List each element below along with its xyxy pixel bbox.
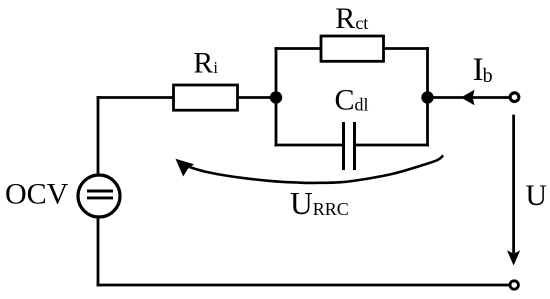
curved arrow URRC arc <box>190 156 443 183</box>
svg-text:U: U <box>525 179 547 212</box>
current arrow Ib head <box>461 90 475 105</box>
node B junction dot <box>421 91 433 103</box>
capacitor Cdl plate left <box>342 122 345 170</box>
svg-text:Ib: Ib <box>473 52 493 88</box>
wire left vertical upper <box>97 98 100 176</box>
svg-text:Ri: Ri <box>193 46 218 79</box>
svg-text:OCV: OCV <box>5 178 69 211</box>
wire U measurement line <box>512 116 515 252</box>
wire top branch right segment <box>384 47 428 50</box>
wire top-left horizontal <box>98 96 174 99</box>
voltage arrow U head <box>507 250 520 265</box>
wire left vertical lower <box>97 218 100 286</box>
resistor Ri <box>174 85 238 110</box>
OCV symbol equals bottom bar <box>87 196 113 199</box>
wire RC right branch vertical <box>426 49 429 146</box>
wire RC left branch vertical <box>275 49 278 146</box>
terminal bottom-right open circle <box>510 281 518 289</box>
wire bottom branch left segment <box>276 144 342 147</box>
wire bottom horizontal <box>98 284 509 287</box>
wire bottom branch right segment <box>356 144 428 147</box>
wire top branch left segment <box>276 47 321 50</box>
wire Ri to node A <box>238 96 277 99</box>
wire Ib lead <box>428 96 509 99</box>
svg-text:Cdl: Cdl <box>335 83 369 116</box>
capacitor Cdl plate right <box>353 122 356 170</box>
OCV symbol equals top bar <box>87 190 113 193</box>
voltage source OCV circle <box>78 175 120 217</box>
curved arrow URRC head <box>176 159 195 177</box>
svg-text:Rct: Rct <box>335 2 368 35</box>
node A junction dot <box>270 91 282 103</box>
terminal top-right open circle <box>510 93 519 102</box>
svg-text:URRC: URRC <box>290 186 349 221</box>
resistor Rct <box>321 36 384 61</box>
